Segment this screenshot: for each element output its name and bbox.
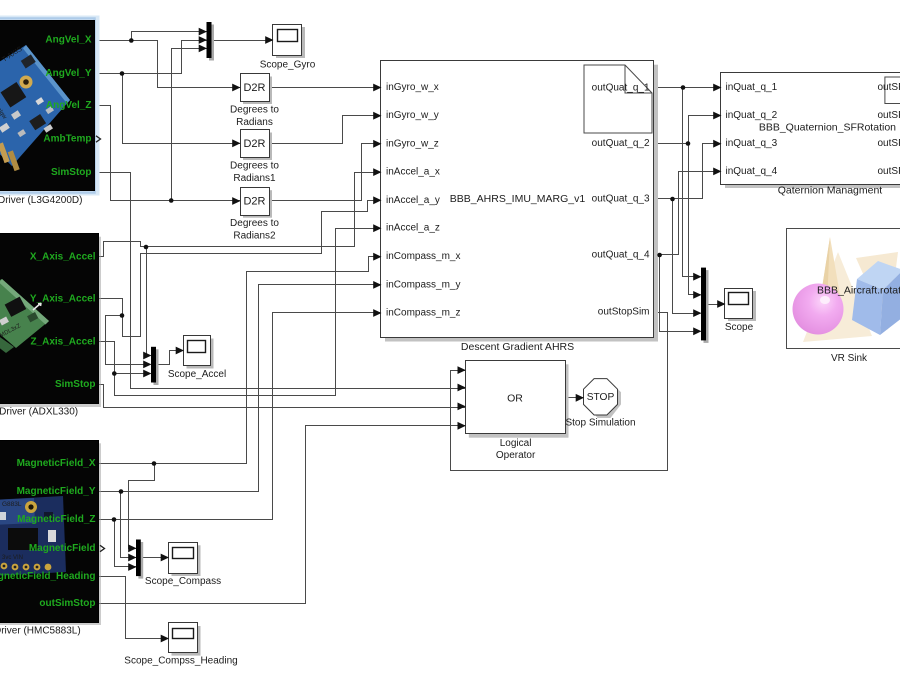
svg-text:MagneticField_X: MagneticField_X [17, 458, 96, 469]
D2R2 block [230, 130, 279, 184]
wire outQuat_q_2 branch to scope mux input 2 [689, 144, 701, 295]
node X_Axis_Accel junction [144, 245, 149, 250]
wire gyro SimStop to OR input 2 [95, 173, 466, 389]
svg-text:Scope_Compss_Heading: Scope_Compss_Heading [124, 656, 237, 667]
wire MagneticField_Heading to Scope_Compss_Heading [99, 577, 169, 639]
svg-text:inGyro_w_x: inGyro_w_x [386, 82, 439, 93]
MagneticField stub port [100, 545, 105, 551]
cube [857, 261, 900, 290]
svg-text:outSFR: outSFR [878, 82, 900, 93]
wire outQuat_q_3 branch to scope mux input 3 [673, 199, 701, 314]
gyro driver block (L3G4200D) selected [0, 18, 98, 194]
wire Y_Axis_Accel to inAccel_a_y [99, 201, 381, 337]
D2R3 block [230, 188, 279, 242]
svg-text:Degrees to: Degrees to [230, 161, 279, 172]
wire accel mux to Scope_Accel [157, 351, 184, 365]
wire Z_Axis_Accel branch to inAccel_a_z [115, 229, 381, 396]
wire outQuat_q_4 branch to scope mux input 4 [660, 255, 701, 332]
svg-text:er Driver (ADXL330): er Driver (ADXL330) [0, 407, 78, 418]
node MagneticField_Z junction [112, 517, 117, 522]
svg-text:Z_Axis_Accel: Z_Axis_Accel [30, 336, 95, 347]
Scope [725, 289, 757, 334]
wire X_Axis_Accel branch to accel mux input 1 [147, 247, 151, 356]
wire MagneticField_X branch to compass mux input 1 [129, 464, 155, 549]
svg-text:outQuat_q_4: outQuat_q_4 [592, 250, 650, 261]
wire outQuat_q_3 to inQuat_q_3 [655, 144, 721, 199]
wire outStopSim loop to OR input 1 [451, 313, 668, 471]
wire MagneticField_Y to inCompass_m_y [99, 285, 381, 492]
svg-text:VR Sink: VR Sink [831, 353, 868, 364]
svg-text:BBB_Quaternion_SFRotation: BBB_Quaternion_SFRotation [759, 122, 896, 134]
svg-text:Scope_Accel: Scope_Accel [168, 369, 226, 380]
svg-text:D2R: D2R [243, 82, 265, 94]
AmbTemp stub port [96, 136, 101, 142]
svg-text:AngVel_Z: AngVel_Z [46, 100, 92, 111]
svg-text:AngVel_X: AngVel_X [45, 35, 91, 46]
svg-text:Scope: Scope [725, 322, 754, 333]
svg-text:outStopSim: outStopSim [598, 307, 650, 318]
compass driver port labels [0, 458, 96, 609]
wire AngVel_Z to D2R3 [95, 106, 241, 201]
wire MagneticField_Z branch to compass mux input 3 [115, 520, 137, 567]
svg-text:outQuat_q_3: outQuat_q_3 [592, 194, 650, 205]
svg-text:SimStop: SimStop [51, 167, 92, 178]
pale wide cone [803, 252, 872, 342]
svg-text:inGyro_w_y: inGyro_w_y [386, 110, 439, 121]
svg-text:inCompass_m_z: inCompass_m_z [386, 308, 460, 319]
wire AngVel_Y to gyro mux input 2 [95, 41, 207, 74]
svg-text:outSFR: outSFR [878, 110, 900, 121]
node AngVel_X junction [129, 38, 134, 43]
svg-text:outQuat_q_1: outQuat_q_1 [592, 83, 650, 94]
Quaternion page icon [885, 77, 900, 104]
svg-text:outSFR: outSFR [878, 138, 900, 149]
node AngVel_Z junction [169, 198, 174, 203]
svg-text:inQuat_q_1: inQuat_q_1 [726, 82, 778, 93]
svg-text:BBB_AHRS_IMU_MARG_v1: BBB_AHRS_IMU_MARG_v1 [450, 193, 586, 205]
Scope_Compss_Heading [124, 623, 237, 667]
wire MagneticField_Y branch to compass mux input 2 [121, 492, 137, 558]
wire scope mux to Scope [707, 304, 725, 306]
wire compass outSimStop to OR input 4 [99, 426, 466, 604]
svg-text:Driver (HMC5883L): Driver (HMC5883L) [0, 625, 81, 636]
svg-text:Operator: Operator [496, 450, 536, 461]
accel PCB photo [0, 279, 49, 353]
node Y_Axis_Accel junction [120, 313, 125, 318]
svg-text:inCompass_m_x: inCompass_m_x [386, 251, 460, 262]
svg-text:Driver (L3G4200D): Driver (L3G4200D) [0, 195, 82, 206]
wire outQuat_q_2 to inQuat_q_2 [655, 116, 721, 144]
wire AngVel_Y branch to D2R2 [123, 74, 241, 144]
svg-text:Logical: Logical [500, 438, 532, 449]
node MagneticField_Y junction [119, 489, 124, 494]
svg-text:MagneticField_Y: MagneticField_Y [17, 486, 96, 497]
wire outQuat_q_1 to inQuat_q_1 [655, 87, 721, 89]
svg-text:STOP: STOP [587, 392, 615, 403]
svg-text:D2R: D2R [243, 138, 265, 150]
gyro driver port labels [43, 35, 91, 178]
arrowheads [128, 28, 725, 643]
node AngVel_Y junction [120, 71, 125, 76]
svg-text:inCompass_m_y: inCompass_m_y [386, 279, 460, 290]
svg-text:G883L: G883L [2, 501, 22, 508]
node outQuat_q_4 junction [657, 253, 662, 258]
wire AngVel_Z branch to gyro mux input 3 [172, 49, 207, 201]
AHRS port labels [386, 82, 650, 319]
Scope_Accel [168, 336, 226, 380]
node outQuat_q_1 junction [681, 85, 686, 90]
accel mux [151, 347, 159, 385]
svg-text:Degrees to: Degrees to [230, 105, 279, 116]
node Z_Axis_Accel junction [112, 371, 117, 376]
svg-text:Radians2: Radians2 [233, 230, 276, 241]
node outQuat_q_2 junction [686, 141, 691, 146]
wire outQuat_q_1 branch to scope mux input 1 [683, 88, 701, 277]
svg-text:MagneticField_Heading: MagneticField_Heading [0, 571, 96, 582]
svg-text:Qaternion Managment: Qaternion Managment [778, 185, 883, 197]
tall thin cone [820, 237, 841, 305]
svg-text:MagneticField_Z: MagneticField_Z [17, 514, 95, 525]
svg-text:X_Axis_Accel: X_Axis_Accel [30, 252, 96, 263]
svg-text:Scope_Compass: Scope_Compass [145, 576, 221, 587]
svg-text:Scope_Gyro: Scope_Gyro [260, 59, 316, 70]
wire OR to STOP [565, 397, 584, 399]
wire AngVel_X branch to gyro mux input 1 [132, 32, 207, 41]
accel driver port labels [30, 252, 96, 391]
Quaternion block [721, 73, 900, 189]
Stop Simulation STOP block [584, 379, 622, 418]
Quaternion port labels [726, 82, 900, 177]
svg-text:OR: OR [507, 392, 523, 404]
node MagneticField_X junction [152, 461, 157, 466]
AHRS model block [381, 61, 659, 342]
D2R1 block [230, 74, 279, 128]
svg-text:SimStop: SimStop [55, 379, 96, 390]
wire Z_Axis_Accel to accel mux input 3 [99, 342, 151, 374]
wire compass mux to Scope_Compass [141, 557, 169, 559]
svg-text:Degrees to: Degrees to [230, 218, 279, 229]
svg-text:outQuat_q_2: outQuat_q_2 [592, 138, 650, 149]
svg-text:Descent Gradient AHRS: Descent Gradient AHRS [461, 341, 574, 353]
svg-text:MagneticField: MagneticField [29, 543, 96, 554]
svg-text:AmbTemp: AmbTemp [43, 134, 91, 145]
node outQuat_q_3 junction [670, 197, 675, 202]
svg-text:Stop Simulation: Stop Simulation [565, 417, 635, 428]
wire D2R1 to inGyro_w_x [269, 87, 381, 89]
Scope_Gyro [260, 25, 316, 71]
gyro PCB photo [0, 45, 70, 171]
svg-text:inQuat_q_4: inQuat_q_4 [726, 166, 778, 177]
svg-text:inAccel_a_z: inAccel_a_z [386, 223, 440, 234]
svg-text:inQuat_q_3: inQuat_q_3 [726, 138, 778, 149]
wire X_Axis_Accel to inAccel_a_x [99, 173, 381, 257]
svg-text:3vc VIN: 3vc VIN [2, 555, 23, 561]
compass driver block (HMC5883L) [0, 441, 101, 626]
svg-text:outSFR: outSFR [878, 166, 900, 177]
scope mux [701, 268, 709, 343]
wire gyro mux to Scope_Gyro [212, 40, 273, 42]
sphere [793, 284, 844, 335]
wire Y_Axis_Accel branch to accel mux input 2 [106, 316, 151, 365]
compass PCB photo [0, 496, 66, 576]
svg-text:inGyro_w_z: inGyro_w_z [386, 138, 439, 149]
wire MagneticField_Z to inCompass_m_z [99, 313, 381, 520]
wire D2R2 to inGyro_w_y [269, 116, 381, 144]
wire accel SimStop to OR input 3 [99, 385, 466, 408]
svg-text:AngVel_Y: AngVel_Y [45, 68, 91, 79]
svg-text:Radians1: Radians1 [233, 173, 276, 184]
svg-text:inAccel_a_x: inAccel_a_x [386, 167, 440, 178]
AHRS model reference page icon [584, 65, 652, 133]
wire MagneticField_X to inCompass_m_x [99, 257, 381, 464]
wire D2R3 to inGyro_w_z [269, 144, 381, 201]
svg-text:inQuat_q_2: inQuat_q_2 [726, 110, 778, 121]
wire outQuat_q_4 to inQuat_q_4 [655, 172, 721, 255]
svg-text:inAccel_a_y: inAccel_a_y [386, 195, 440, 206]
Logical Operator OR block [466, 361, 569, 462]
svg-text:Y_Axis_Accel: Y_Axis_Accel [30, 294, 96, 305]
svg-text:BBB_Aircraft.rotatio: BBB_Aircraft.rotatio [817, 285, 900, 297]
svg-text:Radians: Radians [236, 117, 273, 128]
svg-text:outSimStop: outSimStop [39, 598, 95, 609]
gyro mux [207, 22, 215, 61]
Scope_Compass [145, 543, 221, 587]
compass mux [136, 540, 143, 579]
accel driver block (ADXL330) [0, 234, 101, 408]
wire AngVel_X to D2R1 [94, 41, 240, 88]
VR Sink block [787, 229, 900, 349]
svg-text:D2R: D2R [243, 196, 265, 208]
